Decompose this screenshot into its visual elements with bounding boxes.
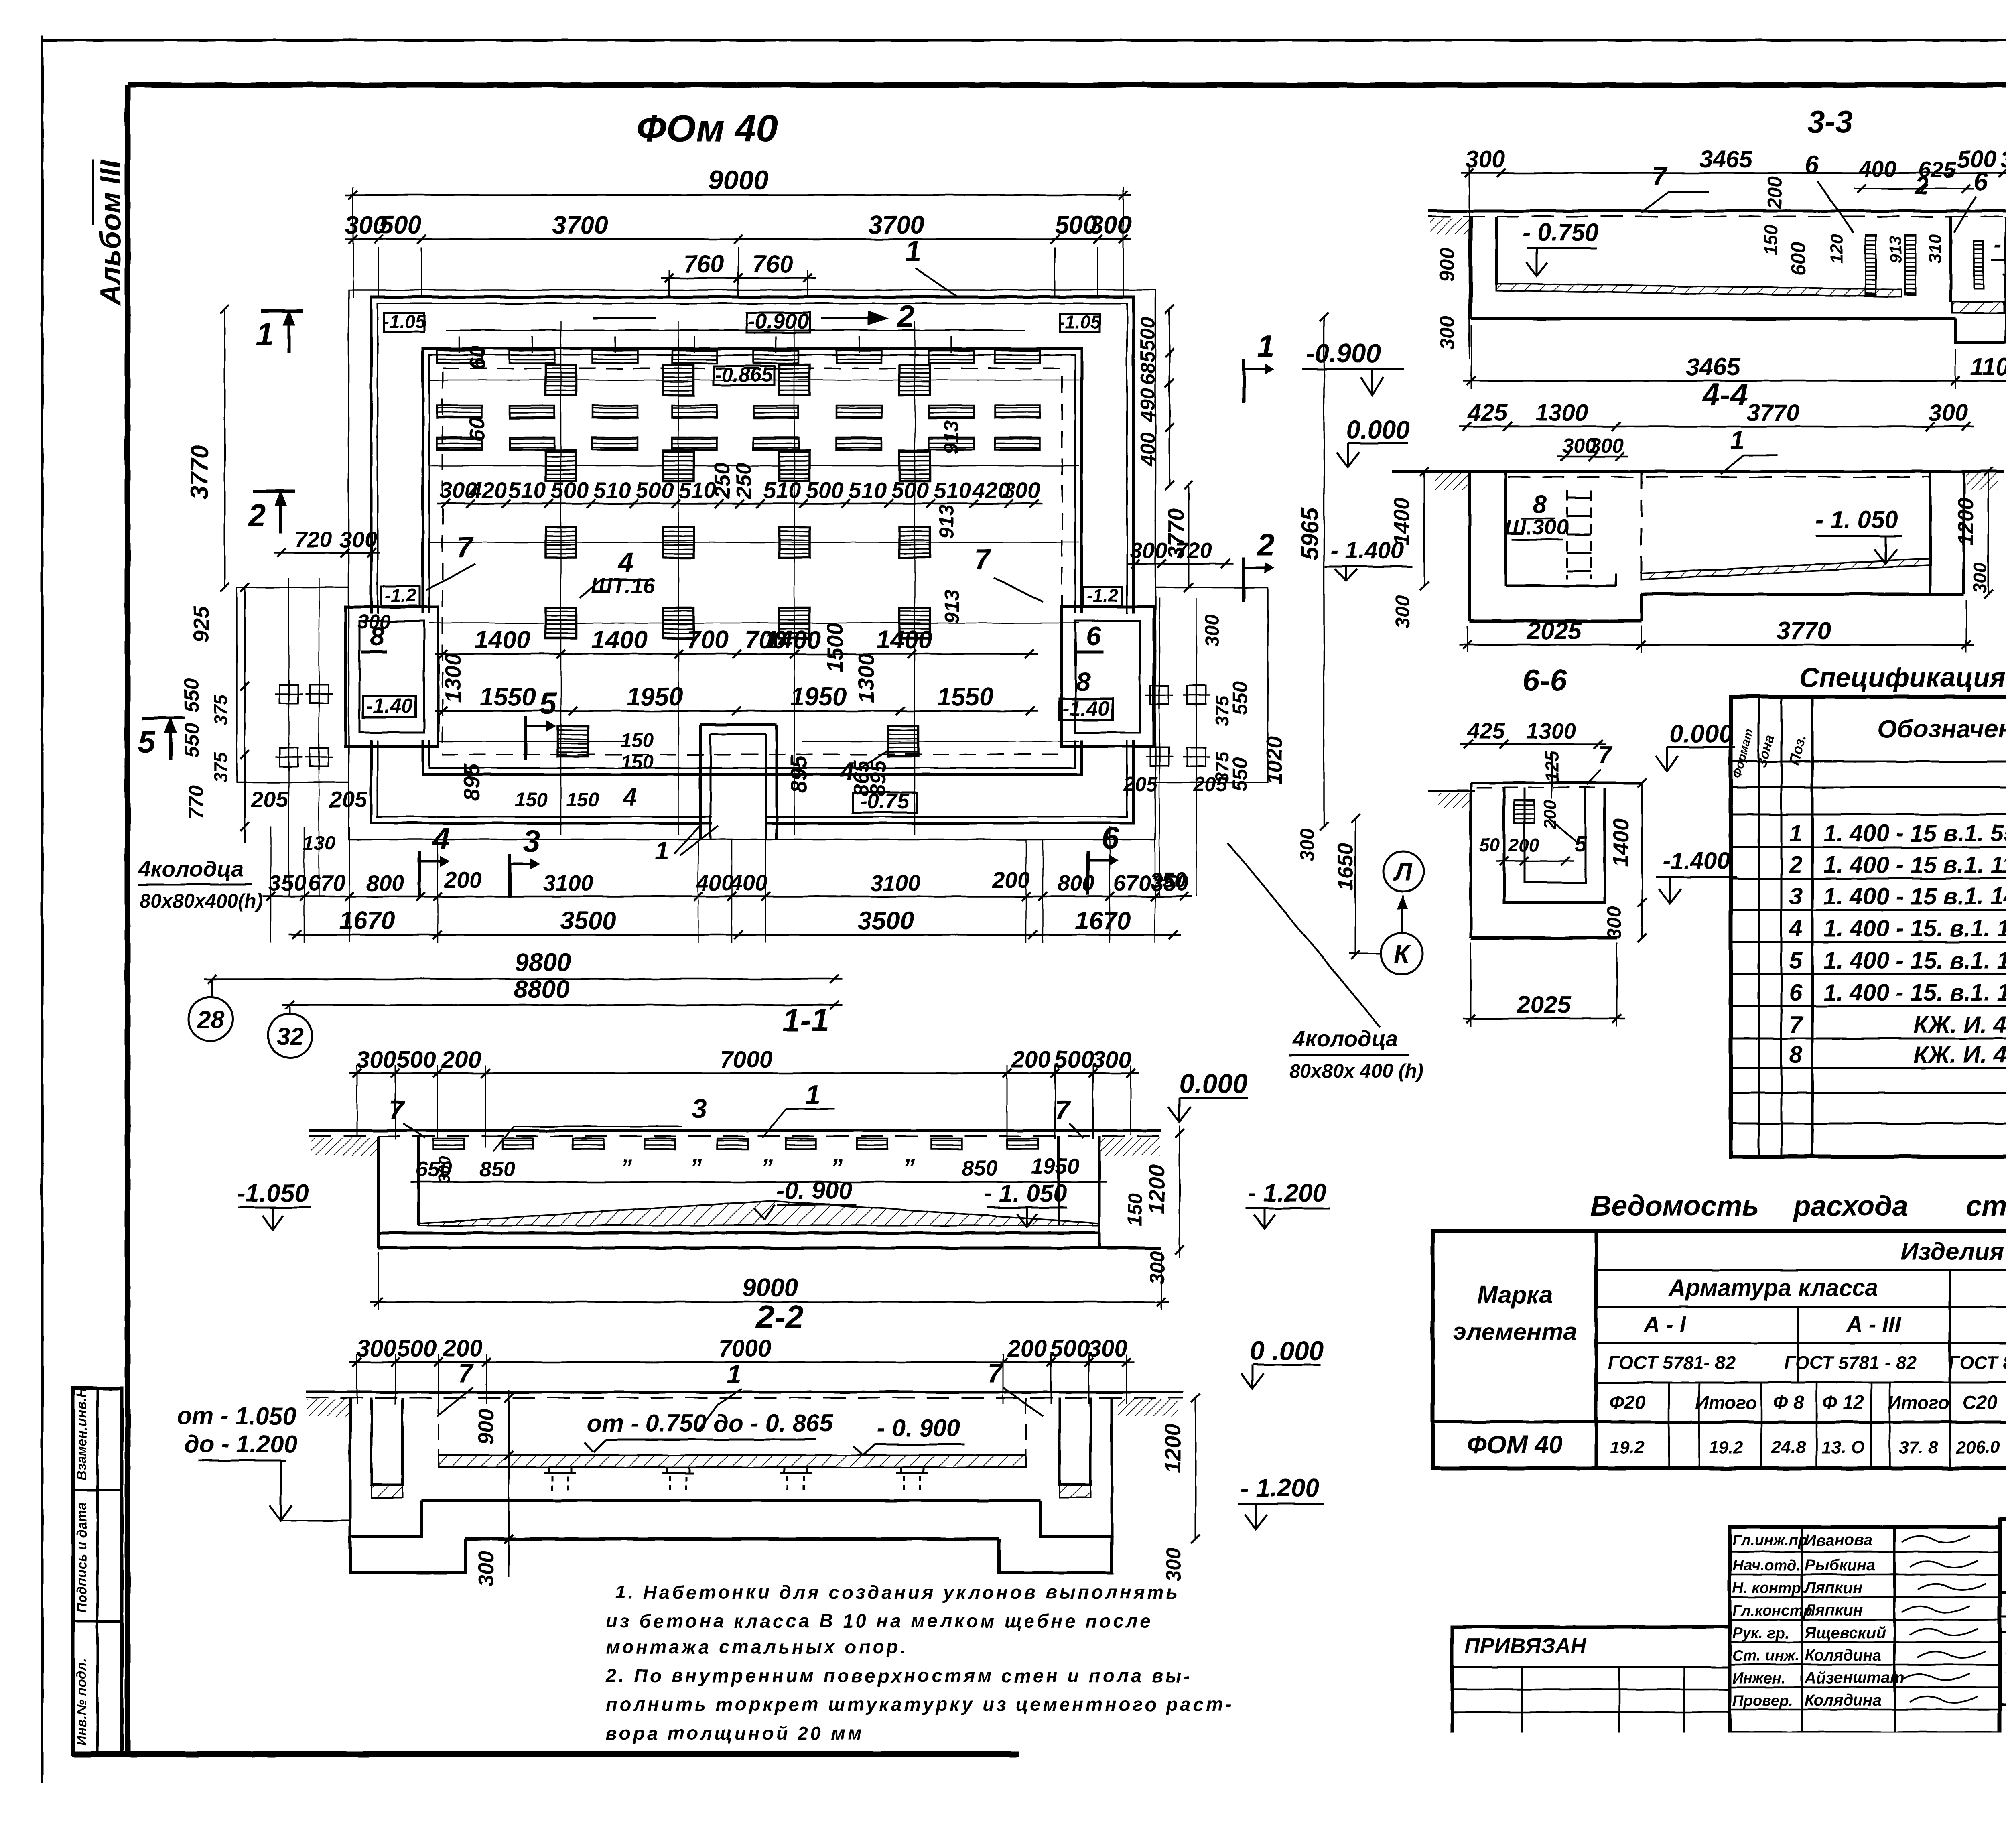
svg-text:1. 400 - 15. в.1. 120 - 02: 1. 400 - 15. в.1. 120 - 02 <box>1823 979 2006 1006</box>
2-2 right pocket <box>1040 1398 1112 1537</box>
svg-text:60: 60 <box>465 417 489 441</box>
svg-text:2: 2 <box>247 497 265 532</box>
6-6 dim chain <box>1460 743 1606 745</box>
svg-text:8: 8 <box>1533 490 1547 518</box>
svg-text:К: К <box>1394 940 1411 968</box>
svg-text:Взамен.инв.Н: Взамен.инв.Н <box>74 1387 89 1480</box>
svg-text:300: 300 <box>1435 316 1458 350</box>
svg-text:400: 400 <box>1136 432 1159 467</box>
1-1 floor pads <box>433 1139 464 1149</box>
steel size row <box>1595 1383 1597 1468</box>
svg-text:510: 510 <box>508 477 546 503</box>
svg-text:Ф20: Ф20 <box>1609 1392 1646 1413</box>
svg-text:770: 770 <box>185 785 207 819</box>
boxed -0.75 <box>853 792 917 812</box>
svg-text:из бетона класса В 10: из бетона класса В 10 на мелком щебне по… <box>606 1610 1153 1631</box>
svg-text:Рук. гр.: Рук. гр. <box>1732 1625 1789 1642</box>
3-3 floor sloped <box>1496 283 1902 297</box>
svg-text:Н. контр.: Н. контр. <box>1732 1580 1805 1596</box>
svg-text:300: 300 <box>339 527 377 552</box>
svg-text:150: 150 <box>1760 224 1781 255</box>
svg-text:80х80х400(h): 80х80х400(h) <box>140 890 263 912</box>
svg-text:Колядина: Колядина <box>1805 1692 1882 1709</box>
svg-text:6: 6 <box>1805 151 1819 179</box>
svg-text:250: 250 <box>710 463 734 499</box>
svg-text:6: 6 <box>1086 621 1102 651</box>
svg-text:200: 200 <box>1011 1046 1051 1073</box>
dim chain 1550/1950/1950/1550 <box>435 710 1038 712</box>
svg-text:1670: 1670 <box>1075 907 1131 935</box>
svg-text:- 0.750: - 0.750 <box>1523 219 1599 246</box>
svg-text:1200: 1200 <box>1954 498 1978 546</box>
svg-text:205: 205 <box>1123 773 1158 796</box>
svg-text:3: 3 <box>692 1093 707 1124</box>
svg-text:8800: 8800 <box>514 975 570 1003</box>
svg-text:7000: 7000 <box>720 1046 772 1073</box>
svg-text:Арматура класса: Арматура класса <box>1668 1275 1878 1301</box>
4-4 dim chain <box>1459 426 1974 428</box>
svg-text:6: 6 <box>1974 168 1988 196</box>
svg-text:ШТ.16: ШТ.16 <box>591 574 656 598</box>
svg-text:2. По внутренним поверхно: 2. По внутренним поверхностям стен и пол… <box>605 1665 1192 1686</box>
svg-text:500: 500 <box>1136 317 1159 351</box>
svg-text:8: 8 <box>1076 667 1091 697</box>
svg-text:1300: 1300 <box>1526 718 1576 743</box>
boxed level -0.865 <box>713 366 774 385</box>
left stamp strip <box>73 1388 122 1754</box>
section marks 1,2 right <box>1244 359 1274 403</box>
svg-text:550: 550 <box>180 723 203 757</box>
outer sheet border <box>41 35 44 1783</box>
steel table grid <box>1433 1231 2006 1468</box>
svg-text:900: 900 <box>1435 248 1458 282</box>
svg-text:500: 500 <box>379 211 421 239</box>
svg-text:150: 150 <box>621 730 654 751</box>
svg-text:1200: 1200 <box>1144 1165 1169 1215</box>
svg-text:7: 7 <box>457 532 474 563</box>
svg-text:205: 205 <box>329 787 367 812</box>
svg-text:-1.2: -1.2 <box>1086 585 1119 606</box>
svg-text:400: 400 <box>696 870 733 896</box>
svg-text:6: 6 <box>1101 820 1119 855</box>
svg-text:1300: 1300 <box>440 653 465 703</box>
svg-text:1-1: 1-1 <box>782 1002 829 1038</box>
svg-text:300: 300 <box>435 1156 453 1184</box>
svg-text:4: 4 <box>839 757 854 786</box>
svg-text:925: 925 <box>189 606 213 642</box>
svg-text:5965: 5965 <box>1297 507 1323 560</box>
svg-text:ГОСТ 5781 - 82: ГОСТ 5781 - 82 <box>1784 1352 1917 1373</box>
3-3 top line <box>1428 210 2006 213</box>
svg-text:ГОСТ 5781- 82: ГОСТ 5781- 82 <box>1608 1352 1736 1373</box>
svg-text:Ведомость: Ведомость <box>1591 1190 1759 1222</box>
svg-text:500: 500 <box>551 477 588 503</box>
svg-text:3100: 3100 <box>871 870 921 896</box>
svg-text:895: 895 <box>459 763 484 801</box>
svg-text:895: 895 <box>786 755 811 793</box>
svg-text:300: 300 <box>1969 562 1990 593</box>
right wing opening <box>1067 614 1147 740</box>
left wing walls <box>345 607 438 747</box>
svg-text:300: 300 <box>357 1335 396 1362</box>
1-1 right wall <box>1059 1136 1099 1233</box>
svg-text:3500: 3500 <box>560 907 616 935</box>
svg-text:ИНВ. №: ИНВ. № <box>1464 1730 1543 1753</box>
svg-text:300: 300 <box>2000 146 2006 173</box>
svg-text:1500: 1500 <box>822 623 847 673</box>
svg-text:720: 720 <box>1175 538 1212 563</box>
2-2 ground top <box>306 1391 1184 1394</box>
svg-text:3100: 3100 <box>543 870 593 896</box>
svg-text:500: 500 <box>397 1335 437 1362</box>
svg-text:1670: 1670 <box>339 907 395 935</box>
svg-text:510: 510 <box>934 477 971 503</box>
svg-text:7000: 7000 <box>718 1335 771 1362</box>
svg-text:420: 420 <box>469 477 507 503</box>
4-4 top line <box>1392 470 2004 473</box>
svg-text:- 1.200: - 1.200 <box>1241 1474 1319 1502</box>
dim 9000 top <box>345 194 1131 196</box>
extension verticals to bottom chains <box>270 827 272 943</box>
svg-text:-0.900: -0.900 <box>747 309 809 333</box>
svg-text:850: 850 <box>479 1157 516 1181</box>
boxed level -0.900 <box>747 313 810 333</box>
svg-text:2025: 2025 <box>1516 991 1572 1018</box>
6-6 top <box>1428 790 1475 792</box>
excavation step left <box>237 587 349 782</box>
svg-text:1550: 1550 <box>937 683 993 711</box>
svg-text:7: 7 <box>1598 741 1613 768</box>
svg-text:670: 670 <box>308 870 345 896</box>
svg-text:стали: стали <box>1966 1190 2006 1222</box>
svg-text:1400: 1400 <box>591 626 648 654</box>
svg-text:1400: 1400 <box>765 626 821 654</box>
3-3 walls <box>1471 217 1496 319</box>
svg-text:1. 400 - 15. в.1. 130 - 56: 1. 400 - 15. в.1. 130 - 56 <box>1823 915 2006 942</box>
svg-text:расхода: расхода <box>1793 1190 1908 1222</box>
left vertical chain 3770 <box>224 309 225 587</box>
3-3 bottom <box>1471 317 1955 320</box>
svg-text:510: 510 <box>593 477 631 503</box>
svg-text:Л: Л <box>1393 858 1413 886</box>
svg-text:3770: 3770 <box>1777 617 1831 644</box>
svg-text:200: 200 <box>444 867 481 892</box>
svg-text:монтажа стальных опор.: монтажа стальных опор. <box>606 1636 908 1657</box>
svg-text:Ш.300: Ш.300 <box>1505 515 1568 539</box>
anchor bar pads <box>437 351 482 363</box>
svg-text:1400: 1400 <box>1609 818 1633 867</box>
svg-text:600: 600 <box>1787 242 1810 276</box>
svg-text:300: 300 <box>1088 1335 1128 1362</box>
svg-text:4колодца: 4колодца <box>138 856 244 881</box>
svg-text:1400: 1400 <box>876 626 932 654</box>
svg-text:-0.900: -0.900 <box>1306 338 1381 368</box>
svg-text:2: 2 <box>896 299 914 334</box>
svg-text:1550: 1550 <box>480 683 536 711</box>
svg-text:ФОм 40: ФОм 40 <box>636 107 778 150</box>
svg-text:3465: 3465 <box>1686 353 1741 380</box>
svg-text:300: 300 <box>1392 595 1413 628</box>
svg-text:1300: 1300 <box>853 653 879 703</box>
svg-text:Провер.: Провер. <box>1732 1692 1793 1709</box>
svg-text:0.000: 0.000 <box>1180 1068 1248 1099</box>
svg-text:- 0. 900: - 0. 900 <box>877 1414 960 1442</box>
svg-text:300: 300 <box>357 1046 396 1073</box>
svg-text:913: 913 <box>940 420 962 454</box>
svg-text:206.0: 206.0 <box>1955 1438 2000 1457</box>
1-1 dim chain <box>349 1072 1139 1074</box>
1-1 bottom slab <box>378 1232 1099 1235</box>
svg-text:300: 300 <box>1466 146 1505 173</box>
svg-text:425: 425 <box>1468 400 1508 426</box>
svg-text:3-3: 3-3 <box>1808 104 1853 139</box>
svg-text:700: 700 <box>686 626 729 654</box>
svg-text:”: ” <box>690 1154 702 1181</box>
svg-text:9800: 9800 <box>515 948 571 977</box>
inner wall face double line <box>423 349 1082 774</box>
svg-text:400: 400 <box>1858 156 1896 181</box>
svg-text:9000: 9000 <box>708 165 768 195</box>
axis circles 28, 32 <box>189 997 233 1041</box>
3-3 embedded channel parts <box>1866 235 1876 295</box>
svg-text:4: 4 <box>622 783 637 811</box>
svg-text:Марка: Марка <box>1477 1281 1553 1308</box>
4-4 bottom dims 2025 3770 <box>1459 644 1974 646</box>
bottom middle slot walls <box>699 725 702 839</box>
2-2 left pocket <box>350 1398 422 1537</box>
svg-text:1950: 1950 <box>627 683 683 711</box>
svg-text:1: 1 <box>655 837 669 865</box>
svg-text:24.8: 24.8 <box>1771 1438 1806 1457</box>
svg-text:3700: 3700 <box>868 211 924 239</box>
svg-text:С20: С20 <box>1962 1392 1998 1413</box>
svg-text:7: 7 <box>389 1095 405 1125</box>
label 1 leader top <box>915 268 959 298</box>
right chain 500/685/490/400 <box>1169 309 1170 485</box>
svg-text:913: 913 <box>1886 236 1905 264</box>
4-4 bottom <box>1470 619 1641 623</box>
svg-text:200: 200 <box>992 867 1029 892</box>
svg-text:- 0.8 65: - 0.8 65 <box>1994 232 2006 257</box>
svg-text:205: 205 <box>250 787 288 812</box>
svg-text:вора толщиной 20 мм: вора толщиной 20 мм <box>606 1722 864 1744</box>
svg-text:1300: 1300 <box>1535 400 1588 426</box>
svg-text:300: 300 <box>474 1551 498 1587</box>
1-1 bottom 9000 <box>370 1301 1169 1303</box>
svg-text:”: ” <box>761 1154 773 1181</box>
svg-text:Ст. инж.: Ст. инж. <box>1732 1647 1799 1664</box>
svg-text:150: 150 <box>515 789 548 811</box>
svg-text:150: 150 <box>621 751 654 773</box>
1-1 ground top line <box>309 1129 1161 1132</box>
svg-text:5: 5 <box>138 724 156 759</box>
svg-text:375: 375 <box>210 751 231 783</box>
slab outer edge <box>349 290 1155 839</box>
svg-text:2: 2 <box>1256 527 1274 563</box>
svg-text:4колодца: 4колодца <box>1292 1026 1398 1051</box>
wells left <box>280 685 298 703</box>
svg-text:1. 400 - 15. в.1. 130 - 02: 1. 400 - 15. в.1. 130 - 02 <box>1823 947 2006 974</box>
svg-text:7: 7 <box>1055 1095 1071 1125</box>
svg-text:ГОСТ 8240 - 72: ГОСТ 8240 - 72 <box>1949 1352 2006 1373</box>
svg-text:300: 300 <box>1162 1547 1185 1582</box>
svg-text:Итого: Итого <box>1695 1392 1757 1413</box>
svg-text:300: 300 <box>1202 614 1223 647</box>
bottom slot opening <box>712 777 765 827</box>
svg-text:300: 300 <box>1003 477 1040 503</box>
svg-text:Итого: Итого <box>1888 1392 1949 1413</box>
svg-text:2: 2 <box>1915 172 1929 199</box>
svg-text:7: 7 <box>988 1358 1004 1388</box>
svg-text:5: 5 <box>539 686 557 721</box>
svg-text:913: 913 <box>940 589 963 623</box>
bottom chain row <box>263 896 1192 898</box>
section marks 1,2 left <box>261 310 303 353</box>
svg-text:1400: 1400 <box>1390 498 1414 546</box>
svg-text:300: 300 <box>357 611 390 633</box>
9800 / 8800 <box>204 978 843 980</box>
svg-text:7: 7 <box>1789 1011 1804 1038</box>
svg-text:ПРИВЯЗАН: ПРИВЯЗАН <box>1464 1634 1586 1658</box>
svg-text:0.000: 0.000 <box>1346 416 1410 444</box>
section marks 4,3,6 bottom <box>419 851 450 896</box>
flow arrows <box>593 317 656 319</box>
svg-text:760: 760 <box>752 250 793 278</box>
right vertical 3770 <box>1188 485 1189 587</box>
svg-text:-0.75: -0.75 <box>860 789 910 813</box>
svg-text:2025: 2025 <box>1527 617 1582 644</box>
svg-text:19.2: 19.2 <box>1610 1438 1645 1457</box>
drawing frame <box>128 82 2006 88</box>
svg-text:500: 500 <box>397 1046 437 1073</box>
6-6 bottom dim 2025 <box>1463 1018 1625 1020</box>
svg-text:”: ” <box>620 1154 632 1181</box>
svg-text:Спецификация: Спецификация <box>1799 662 2006 693</box>
svg-text:4: 4 <box>617 547 633 578</box>
4-4 dims 300 300 <box>1557 456 1628 458</box>
svg-text:425: 425 <box>1467 718 1505 743</box>
svg-text:1100: 1100 <box>1970 353 2006 380</box>
svg-text:1020: 1020 <box>1263 736 1287 784</box>
svg-text:КЖ. И. 42. 0: КЖ. И. 42. 0 <box>1914 1011 2006 1038</box>
svg-text:80х80х 400 (h): 80х80х 400 (h) <box>1289 1060 1423 1082</box>
svg-text:28: 28 <box>197 1006 224 1033</box>
svg-text:150: 150 <box>1125 1193 1146 1226</box>
svg-text:4: 4 <box>1789 915 1803 942</box>
svg-text:-1.05: -1.05 <box>1059 311 1101 332</box>
6-6 body <box>1470 783 1472 938</box>
svg-text:Ф 8: Ф 8 <box>1773 1392 1804 1413</box>
svg-text:полнить торкрет штукат: полнить торкрет штукатурку из цементного… <box>606 1694 1234 1715</box>
svg-text:375: 375 <box>1212 695 1232 726</box>
svg-text:500: 500 <box>891 477 928 503</box>
svg-text:1. 400 - 15 в.1. 140 - 02: 1. 400 - 15 в.1. 140 - 02 <box>1823 883 2006 910</box>
svg-text:Нач.отд.: Нач.отд. <box>1732 1557 1801 1574</box>
svg-text:8: 8 <box>1789 1042 1803 1068</box>
svg-text:от - 0.750 до - 0. 865: от - 0.750 до - 0. 865 <box>587 1409 834 1437</box>
svg-text:800: 800 <box>366 870 404 896</box>
svg-text:130: 130 <box>303 833 335 854</box>
dim 720 300 left <box>274 552 380 554</box>
4-4 ladder symbol <box>1567 497 1591 499</box>
svg-text:-1.2: -1.2 <box>384 585 416 606</box>
svg-text:5: 5 <box>1789 947 1803 974</box>
svg-text:7: 7 <box>458 1358 474 1388</box>
svg-text:А - III: А - III <box>1846 1312 1902 1337</box>
svg-text:900: 900 <box>474 1409 498 1445</box>
2-2 bottom footing <box>350 1537 465 1573</box>
svg-text:1. Набетонки для создани: 1. Набетонки для создания уклонов выполн… <box>615 1582 1180 1603</box>
4-4 right wall <box>1929 471 1932 594</box>
svg-text:- 1. 050: - 1. 050 <box>1815 506 1898 533</box>
section mark 5 inside <box>526 716 556 760</box>
svg-text:1400: 1400 <box>474 626 530 654</box>
right wing walls <box>1062 607 1154 747</box>
inner chain 300..510 <box>437 503 1042 505</box>
svg-text:500: 500 <box>636 477 673 503</box>
svg-text:”: ” <box>903 1154 915 1181</box>
svg-text:1950: 1950 <box>1031 1154 1079 1178</box>
left chain 925/550/375/550/770 <box>244 587 246 843</box>
svg-text:490: 490 <box>1136 388 1159 422</box>
svg-text:-1.050: -1.050 <box>237 1179 309 1207</box>
svg-text:350: 350 <box>1150 868 1186 892</box>
svg-text:Гл.инж.пр: Гл.инж.пр <box>1732 1532 1807 1549</box>
inner dashed contour <box>443 368 1062 755</box>
svg-text:150: 150 <box>566 789 599 811</box>
svg-text:элемента: элемента <box>1453 1318 1577 1345</box>
section mark 5 left <box>142 717 185 760</box>
svg-text:300: 300 <box>1092 1046 1132 1073</box>
svg-text:205: 205 <box>1193 773 1228 796</box>
svg-text:300: 300 <box>1130 538 1167 563</box>
svg-text:350: 350 <box>268 870 306 896</box>
svg-text:550: 550 <box>180 678 203 712</box>
svg-text:3700: 3700 <box>552 211 608 239</box>
svg-text:400: 400 <box>729 870 767 896</box>
svg-text:50: 50 <box>1479 835 1500 855</box>
svg-text:Инжен.: Инжен. <box>1732 1670 1786 1687</box>
svg-text:310: 310 <box>1925 234 1945 264</box>
svg-text:720: 720 <box>294 527 332 552</box>
svg-text:0 .000: 0 .000 <box>1250 1336 1324 1365</box>
svg-text:6: 6 <box>1789 979 1803 1006</box>
svg-text:-1.40: -1.40 <box>366 694 413 717</box>
svg-text:375: 375 <box>210 694 231 725</box>
right chain 300 720 <box>1127 563 1233 565</box>
chain 1670 3500 3500 1670 <box>289 934 1181 936</box>
svg-text:Инв.№ подл.: Инв.№ подл. <box>74 1658 89 1745</box>
svg-text:300: 300 <box>1929 400 1968 426</box>
dim chain 300/500/3700/3700/500/300 <box>345 238 1131 240</box>
svg-text:Ящевский: Ящевский <box>1804 1624 1886 1642</box>
svg-text:1. 400 - 15 в.1. 110 - 10: 1. 400 - 15 в.1. 110 - 10 <box>1823 852 2006 878</box>
plan centerlines <box>560 321 562 835</box>
svg-text:1: 1 <box>256 317 273 352</box>
svg-text:760: 760 <box>683 250 724 278</box>
svg-text:1: 1 <box>1789 820 1803 847</box>
2-2 dim chain <box>349 1361 1135 1363</box>
1-1 left wall <box>378 1136 419 1233</box>
svg-text:5: 5 <box>1574 831 1587 856</box>
svg-text:200: 200 <box>1764 176 1786 209</box>
2-2 900 / 300 rotated dims <box>508 1390 510 1547</box>
svg-text:1. 400 - 15 в.1. 550 - 04: 1. 400 - 15 в.1. 550 - 04 <box>1823 820 2006 847</box>
svg-text:500: 500 <box>1054 1046 1094 1073</box>
svg-text:ФОМ 40: ФОМ 40 <box>1467 1431 1563 1459</box>
svg-text:300: 300 <box>1146 1251 1169 1285</box>
1-1 inner dims 650 850 .. 1950 <box>411 1181 1107 1183</box>
